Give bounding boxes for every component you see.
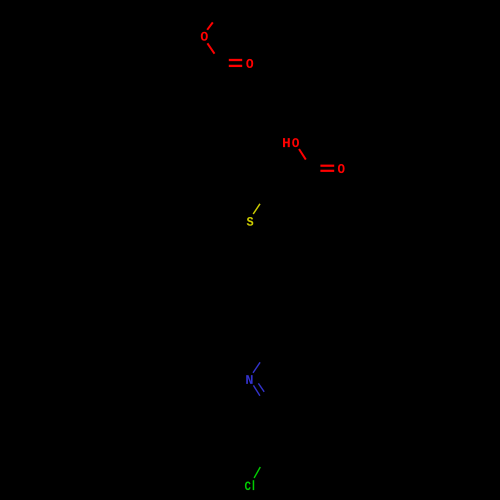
bond O3-C carboxyl (half, red) xyxy=(299,149,306,160)
bond N-C8a (half, blue) xyxy=(253,362,260,373)
N=C2 double bond outer line (half, blue) xyxy=(253,385,260,395)
chlorine Cl label: C glyph xyxy=(245,482,251,491)
acid hydroxyl H label xyxy=(283,138,290,147)
chlorine Cl label: l glyph xyxy=(253,480,255,490)
bond O1-CH3 methyl (half, red) xyxy=(207,22,213,29)
thioether sulfur S label xyxy=(247,217,254,226)
bond S-CH2 (half, yellow) xyxy=(253,204,260,214)
bond O1-C carbonyl (half, red) xyxy=(207,43,214,53)
acid C=O double bond upper line xyxy=(320,165,334,167)
quinoline nitrogen N label xyxy=(246,375,252,384)
bond Cl-C7 (half, green) xyxy=(254,467,260,478)
acid carbonyl oxygen O4 label xyxy=(338,164,345,173)
ester C=O double bond upper line xyxy=(229,59,242,61)
ester oxygen O1 label xyxy=(201,32,208,41)
acid C=O double bond lower line xyxy=(320,170,334,172)
ester carbonyl oxygen O2 label xyxy=(246,59,253,68)
acid hydroxyl oxygen O3 label xyxy=(292,138,299,147)
ester C=O double bond lower line xyxy=(229,65,242,67)
N=C2 double bond inner line (half, blue) xyxy=(258,383,264,391)
